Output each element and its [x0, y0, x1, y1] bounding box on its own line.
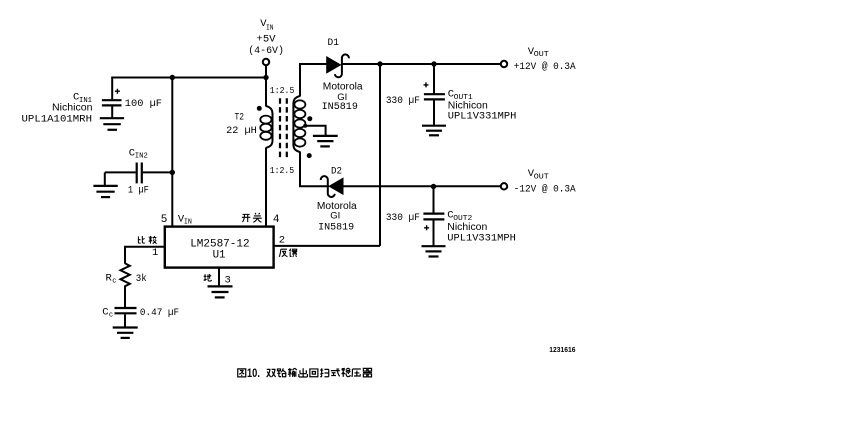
label capacitor COUT1 [386, 89, 516, 123]
wire CIN2 ground stub [104, 172, 106, 185]
junction dot COUT1 [431, 61, 436, 66]
transformer T2 primary bracket [266, 106, 273, 148]
node label VIN top [248, 18, 284, 57]
svg-text:c: c [109, 312, 113, 320]
label capacitor CIN1 [22, 92, 163, 126]
node VOUT -12V terminal [501, 183, 507, 189]
junction dot center tap [303, 124, 307, 128]
capacitor COUT1 plates [424, 94, 445, 99]
caption char shi [331, 368, 340, 376]
svg-text:1 µF: 1 µF [128, 185, 149, 197]
svg-text:2: 2 [279, 234, 285, 246]
node VIN input terminal [263, 59, 269, 65]
junction dot CIN2 [170, 170, 175, 175]
capacitor CIN2 plates [137, 163, 142, 184]
ground (secondary center tap) [313, 136, 338, 147]
svg-text:1:2.5: 1:2.5 [270, 165, 295, 176]
svg-text:10.: 10. [247, 366, 260, 380]
wire secondary top to D1 [300, 64, 327, 97]
svg-text:IN: IN [184, 219, 192, 227]
caption char sao [320, 368, 329, 376]
polarity + CIN1 [115, 89, 120, 94]
caption char shuang [267, 369, 276, 377]
wire CIN2 right [143, 171, 173, 173]
label diode D1 [322, 37, 363, 112]
svg-text:3: 3 [225, 275, 231, 287]
svg-text:C: C [102, 307, 108, 319]
polarity + COUT2 [424, 225, 429, 230]
op-amp U1 LM2587-12 IC box [165, 227, 274, 268]
svg-text:D1: D1 [328, 37, 339, 49]
phase dot secondary upper [307, 116, 312, 121]
svg-text:IN5819: IN5819 [322, 101, 358, 112]
pin label VIN (pin5) [178, 213, 192, 226]
svg-text:GI: GI [330, 211, 340, 222]
wire +12V rail [343, 63, 501, 65]
svg-text:UPL1V331MPH: UPL1V331MPH [448, 110, 517, 122]
wire -12V rail [343, 185, 501, 187]
ground (IC pin3) [208, 286, 233, 297]
svg-text:0.47 µF: 0.47 µF [140, 307, 179, 319]
wire COUT2 top stub [433, 187, 435, 214]
caption char ya [352, 369, 361, 377]
junction dot COUT2 [431, 184, 436, 189]
phase dot secondary lower [307, 153, 312, 158]
capacitor CIN1 plates [102, 100, 122, 105]
wire feedback horizontal to pin2 [275, 245, 381, 247]
wire CIN2 left [105, 171, 136, 173]
junction dot rail/VIN-net [170, 75, 175, 80]
wire VIN terminal stub [265, 66, 267, 107]
svg-text:IN: IN [266, 25, 274, 33]
pin label di (ground) for pin 3 [204, 274, 212, 281]
svg-text:IN5819: IN5819 [318, 222, 354, 233]
capacitor Cc plates [115, 308, 137, 313]
caption char lu [277, 368, 286, 376]
svg-text:Motorola: Motorola [323, 81, 363, 92]
wire feedback vertical [379, 64, 381, 246]
diode D2 schottky cathode [321, 176, 335, 197]
svg-text:UPL1A101MRH: UPL1A101MRH [22, 114, 93, 126]
junction dot feedback/+12V [377, 61, 382, 66]
transformer T2 primary loops [260, 116, 271, 140]
ground (COUT1) [422, 126, 446, 136]
wire CIN1 ground stub [111, 106, 113, 118]
wire top rail VIN [111, 77, 266, 79]
label resistor Rc value 3k [106, 272, 147, 285]
svg-text:Nichicon: Nichicon [52, 103, 93, 114]
svg-text:T2: T2 [235, 112, 245, 124]
svg-text:c: c [112, 277, 116, 285]
node label VOUT +12V [514, 46, 576, 72]
wire COUT2 bottom stub [433, 220, 435, 246]
wire pin1 to Rc [125, 247, 165, 264]
node VOUT +12V terminal [501, 61, 507, 67]
diode D2 triangle [329, 178, 343, 194]
caption char chu [299, 368, 308, 377]
transformer T2 secondary bracket [293, 96, 300, 152]
label diode D2 [317, 165, 357, 232]
svg-text:1:2.5: 1:2.5 [270, 85, 295, 96]
wire CIN1 stub [111, 78, 113, 100]
svg-text:1231616: 1231616 [549, 347, 575, 354]
caption char qi [363, 368, 372, 376]
svg-text:IN2: IN2 [135, 153, 148, 161]
svg-text:22 µH: 22 µH [226, 125, 257, 137]
wire secondary bottom to D2 [300, 152, 329, 187]
svg-text:5: 5 [161, 214, 168, 226]
wire COUT1 bottom stub [433, 100, 435, 125]
node label VOUT -12V [514, 168, 576, 194]
transformer core dashed lines [280, 98, 287, 159]
capacitor COUT2 plates [423, 214, 444, 220]
svg-text:1: 1 [152, 247, 158, 259]
wire pin3 ground stub [218, 268, 220, 287]
svg-text:+12V @ 0.3A: +12V @ 0.3A [514, 61, 576, 72]
diode D1 triangle [327, 57, 341, 73]
ground (Cc) [113, 328, 138, 338]
svg-text:OUT: OUT [534, 51, 550, 59]
pin label bi-jiao (compare) for pin 1 [138, 236, 156, 244]
resistor Rc zigzag [121, 263, 130, 287]
diode D1 schottky cathode [335, 54, 349, 77]
transformer T2 secondary loops [294, 100, 305, 146]
label U1 LM2587-12 [190, 239, 249, 262]
wire VIN net vertical (rail to pin5) [171, 78, 173, 227]
ground (CIN1) [100, 118, 124, 130]
svg-text:100 µF: 100 µF [125, 98, 162, 110]
ground (COUT2) [422, 246, 446, 256]
wire primary to pin4 [265, 148, 267, 227]
phase dot primary [257, 106, 262, 111]
wire COUT1 top stub [433, 64, 435, 94]
svg-text:(4-6V): (4-6V) [248, 45, 284, 57]
wire secondary center tap [305, 126, 326, 136]
svg-text:4: 4 [273, 214, 280, 226]
label capacitor COUT2 [386, 209, 516, 244]
caption char shu [288, 368, 297, 377]
label capacitor Cc value [102, 307, 179, 320]
svg-text:U1: U1 [213, 250, 226, 262]
svg-text:UPL1V331MPH: UPL1V331MPH [447, 232, 516, 244]
caption char tu (figure) [238, 369, 246, 377]
label transformer T2 [226, 85, 295, 176]
caption char wen [341, 368, 350, 377]
svg-text:3k: 3k [136, 273, 147, 285]
junction dot rail/terminal [263, 75, 268, 80]
svg-text:+5V: +5V [257, 34, 277, 46]
svg-text:D2: D2 [331, 165, 342, 177]
pin label fan-kui (feedback) for pin 2 [279, 249, 297, 257]
svg-text:OUT: OUT [534, 174, 550, 182]
caption figure title glyphs [238, 368, 372, 377]
wire Rc to Cc [124, 287, 126, 308]
wire Cc ground stub [124, 314, 126, 327]
label capacitor CIN2 [128, 147, 149, 196]
svg-text:330 µF: 330 µF [386, 95, 420, 107]
svg-text:330 µF: 330 µF [386, 212, 420, 224]
polarity + COUT1 [424, 82, 429, 87]
caption char hui [310, 369, 318, 377]
pin label kai-guan (switch) for pin 4 [242, 213, 262, 222]
svg-text:-12V @ 0.3A: -12V @ 0.3A [514, 183, 576, 194]
ground (CIN2) [93, 186, 117, 197]
